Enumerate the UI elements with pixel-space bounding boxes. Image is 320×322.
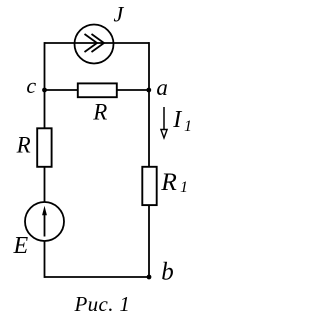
resistor R (left branch)	[37, 128, 51, 167]
voltage source E (circle with up arrow)	[25, 202, 64, 241]
node b (junction dot)	[147, 275, 152, 280]
wire middle left (c to R)	[45, 89, 79, 91]
wire right lower (R1 to node b)	[148, 205, 150, 278]
svg-text:a: a	[156, 75, 168, 100]
svg-text:b: b	[161, 258, 174, 285]
node c (junction dot)	[42, 88, 47, 93]
wire left between R and E	[44, 167, 46, 203]
wire bottom (E corner to node b)	[45, 276, 150, 278]
svg-text:R: R	[16, 132, 31, 157]
svg-text:1: 1	[180, 179, 188, 196]
wire middle right (R to a)	[117, 89, 150, 91]
wire left lower (E to bottom corner)	[44, 241, 46, 278]
svg-text:R: R	[92, 100, 107, 125]
svg-text:J: J	[114, 2, 125, 27]
wire top (c to a via J)	[45, 42, 150, 44]
svg-text:I: I	[172, 107, 182, 133]
svg-text:E: E	[13, 233, 29, 259]
current source J (circle with double arrow)	[75, 25, 114, 64]
node a (junction dot)	[146, 88, 151, 93]
svg-text:R: R	[160, 167, 177, 196]
current arrow I1	[161, 107, 167, 138]
svg-text:c: c	[26, 73, 36, 98]
resistor R1 (right branch)	[142, 167, 156, 205]
wire left upper (corner to node c to resistor R)	[44, 42, 46, 128]
wire right upper (corner to node a to R1)	[148, 42, 150, 167]
svg-text:Рис. 1: Рис. 1	[74, 292, 131, 316]
svg-text:1: 1	[184, 118, 192, 135]
resistor R (horizontal, between c and a)	[78, 83, 117, 97]
